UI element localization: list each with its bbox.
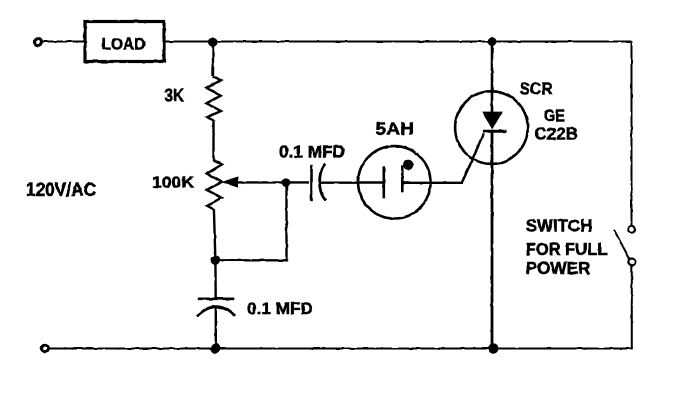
svg-text:SCR: SCR [520, 79, 553, 99]
svg-text:GE: GE [544, 106, 565, 126]
svg-text:120V/AC: 120V/AC [26, 180, 96, 201]
svg-text:LOAD: LOAD [102, 34, 146, 53]
svg-text:3K: 3K [165, 86, 185, 106]
svg-text:5AH: 5AH [376, 119, 415, 139]
svg-text:FOR FULL: FOR FULL [526, 239, 608, 259]
svg-text:C22B: C22B [535, 124, 579, 144]
svg-text:0.1 MFD: 0.1 MFD [279, 142, 345, 162]
svg-text:POWER: POWER [526, 258, 591, 278]
svg-text:0.1 MFD: 0.1 MFD [247, 299, 313, 318]
svg-text:100K: 100K [152, 175, 194, 192]
svg-text:SWITCH: SWITCH [526, 216, 593, 236]
